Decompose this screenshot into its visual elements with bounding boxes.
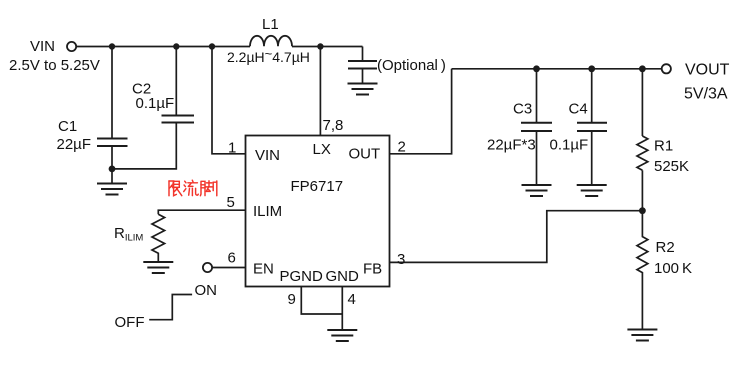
node input junction at C1 — [109, 43, 115, 49]
svg-text:2.5V to 5.25V: 2.5V to 5.25V — [9, 57, 100, 74]
wire ON-OFF waveform — [149, 295, 192, 320]
ground below R2 — [627, 330, 657, 341]
capacitor C4 — [577, 123, 607, 131]
wire R1 top — [641, 69, 643, 136]
ground below C4 — [577, 185, 607, 196]
svg-text:ILIM: ILIM — [253, 203, 282, 220]
svg-text:9: 9 — [288, 291, 296, 308]
resistor RILIM — [152, 214, 165, 262]
ground below C1 — [97, 184, 127, 195]
svg-text:OFF: OFF — [115, 314, 145, 331]
wire optional cap to ground — [362, 69, 364, 84]
svg-text:5V/3A: 5V/3A — [684, 86, 728, 103]
wire ILIM pin5 — [158, 210, 245, 214]
svg-text:1: 1 — [228, 140, 236, 157]
wire input rail — [76, 46, 250, 48]
svg-text:L1: L1 — [262, 16, 279, 33]
node FB divider junction — [639, 207, 646, 214]
label red annotation xian-liu-jiao (current limit pin) — [169, 180, 217, 196]
svg-text:OUT: OUT — [349, 146, 381, 163]
char xian — [169, 181, 182, 196]
wire R1 bottom to FB node — [641, 170, 643, 210]
resistor R1 — [637, 136, 648, 170]
svg-text:C1: C1 — [58, 118, 77, 135]
op IC U1 FP6717 box — [246, 136, 390, 287]
wire C3 branch — [536, 69, 538, 123]
ground below RILIM — [143, 262, 173, 273]
svg-text:C4: C4 — [569, 101, 588, 118]
svg-text:FP6717: FP6717 — [291, 178, 344, 195]
node VOUT junction at C4 — [588, 65, 595, 72]
wire EN pin6 — [212, 267, 245, 269]
svg-text:6: 6 — [228, 250, 236, 267]
svg-text:VIN: VIN — [255, 147, 280, 164]
wire C1 bottom — [111, 146, 113, 184]
char liu — [184, 180, 199, 195]
terminal VIN — [67, 42, 76, 51]
svg-text:7,8: 7,8 — [323, 117, 344, 134]
svg-text:3: 3 — [397, 251, 405, 268]
wire FB net — [390, 211, 643, 263]
svg-text:2: 2 — [398, 139, 406, 156]
wire OUT pin2 to VOUT rail — [390, 69, 452, 154]
svg-text:C3: C3 — [513, 101, 532, 118]
node C1-C2 ground junction — [109, 166, 116, 173]
capacitor C1 — [97, 139, 128, 147]
wire C2 bottom to ground junction — [112, 123, 176, 169]
char jiao — [200, 181, 216, 196]
svg-text:PGND: PGND — [280, 268, 324, 285]
wire C1 branch down — [111, 47, 113, 139]
svg-text:EN: EN — [253, 261, 274, 278]
terminal EN — [203, 263, 212, 272]
node input junction at pin1 branch — [209, 43, 215, 49]
node input junction at C2 — [173, 43, 179, 49]
wire C3 to ground — [536, 131, 538, 185]
node VOUT junction at C3 — [533, 65, 540, 72]
node LX junction — [317, 43, 323, 49]
wire GND pin4 — [341, 287, 343, 331]
svg-text:VOUT: VOUT — [685, 62, 730, 79]
svg-text:FB: FB — [363, 261, 382, 278]
resistor R2 — [637, 211, 648, 330]
svg-text:100 K: 100 K — [654, 260, 692, 277]
ground below GND pins — [327, 330, 357, 341]
wire VOUT rail — [452, 68, 662, 70]
svg-text:RILIM: RILIM — [114, 225, 143, 244]
svg-text:R2: R2 — [656, 239, 675, 256]
wire C4 to ground — [591, 131, 593, 185]
svg-text:0.1µF: 0.1µF — [136, 95, 175, 112]
ground below optional cap — [348, 84, 378, 95]
svg-text:2.2µH~4.7µH: 2.2µH~4.7µH — [227, 46, 310, 65]
svg-text:5: 5 — [227, 194, 235, 211]
svg-text:525K: 525K — [654, 158, 689, 175]
terminal VOUT — [662, 64, 671, 73]
svg-text:R1: R1 — [654, 138, 673, 155]
svg-text:22µF: 22µF — [57, 136, 92, 153]
capacitor C-optional — [348, 61, 377, 69]
wire PGND pin9 — [301, 287, 342, 315]
node VOUT junction at R1 — [639, 65, 646, 72]
capacitor C3 — [521, 123, 552, 131]
wire C4 branch — [591, 69, 593, 123]
wire LX branch down — [319, 47, 321, 136]
svg-text:0.1µF: 0.1µF — [550, 137, 589, 154]
wire pin1 branch — [212, 47, 246, 154]
svg-text:ON: ON — [195, 282, 218, 299]
svg-text:(Optional ): (Optional ) — [377, 57, 446, 74]
inductor L1 — [250, 36, 292, 46]
svg-text:VIN: VIN — [30, 38, 55, 55]
wire optional cap branch — [362, 47, 364, 62]
svg-text:22µF*3: 22µF*3 — [487, 137, 536, 154]
wire C2 branch down — [175, 47, 177, 116]
ground below C3 — [522, 185, 552, 196]
svg-text:4: 4 — [348, 291, 356, 308]
capacitor C2 — [162, 116, 195, 123]
svg-text:GND: GND — [326, 268, 360, 285]
svg-text:LX: LX — [313, 141, 331, 158]
